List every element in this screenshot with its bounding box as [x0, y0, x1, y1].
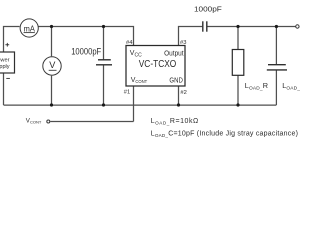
svg-text:#3: #3: [180, 40, 186, 46]
wire voltmeter bottom branch: [51, 76, 53, 105]
power supply PS1: [0, 52, 15, 73]
minus terminal label: [6, 77, 10, 79]
node junction top voltmeter: [50, 25, 53, 28]
wire top-left from supply to ammeter: [4, 27, 20, 53]
svg-text:GND: GND: [169, 77, 183, 84]
node junction load resistor top: [236, 25, 239, 28]
wire pin3 to output capacitor: [179, 27, 203, 46]
wire capacitor C1 top branch: [103, 27, 105, 60]
output terminal: [296, 25, 299, 28]
node junction bottom capacitor C1: [102, 103, 105, 106]
svg-text:#1: #1: [124, 89, 130, 95]
node junction pin2 bottom: [177, 103, 180, 106]
op IC U1 VC-TCXO: [126, 46, 185, 87]
node junction load resistor bottom: [236, 103, 239, 106]
node junction bottom voltmeter: [50, 103, 53, 106]
plus terminal label: [5, 43, 9, 47]
wire load capacitor top branch: [275, 27, 277, 65]
svg-text:VCONT: VCONT: [26, 117, 42, 124]
svg-text:#2: #2: [180, 90, 186, 96]
svg-text:#4: #4: [126, 40, 133, 46]
voltmeter V: [43, 57, 61, 75]
wire load resistor top branch: [237, 27, 239, 50]
wire bottom rail: [4, 104, 277, 106]
svg-text:VCC: VCC: [130, 50, 142, 58]
svg-text:Power: Power: [0, 58, 10, 64]
svg-text:mA: mA: [24, 23, 36, 33]
svg-text:Output: Output: [164, 51, 184, 58]
wire output capacitor to terminal: [207, 26, 295, 28]
svg-text:LOAD_C=10pF (Include Jig stray: LOAD_C=10pF (Include Jig stray capacitan…: [151, 131, 298, 138]
wire load resistor bottom branch: [237, 75, 239, 105]
resistor Load_R: [232, 50, 268, 92]
svg-text:V: V: [49, 60, 56, 70]
wire load capacitor bottom branch: [275, 70, 277, 105]
wire left vertical supply minus to bottom: [3, 73, 5, 105]
wire Vcont terminal to pin1: [50, 121, 133, 123]
wire pin1 to Vcont: [133, 86, 135, 122]
svg-text:supply: supply: [0, 64, 10, 70]
capacitor C1 10000pF: [96, 60, 112, 65]
wire capacitor C1 bottom branch: [103, 65, 105, 105]
svg-text:VC-TCXO: VC-TCXO: [139, 59, 177, 70]
wire pin2 to ground rail: [178, 86, 180, 105]
Vcont input terminal: [47, 120, 50, 123]
node junction top capacitor C1: [102, 25, 105, 28]
svg-text:10000pF: 10000pF: [71, 47, 102, 57]
capacitor Load_C: [267, 65, 306, 92]
svg-text:1000pF: 1000pF: [194, 5, 222, 14]
capacitor C2 1000pF: [203, 21, 207, 31]
wire voltmeter top branch: [51, 27, 53, 57]
node junction load capacitor top: [275, 25, 278, 28]
ammeter mA: [20, 19, 38, 37]
wire ammeter to pin4: [38, 27, 133, 46]
